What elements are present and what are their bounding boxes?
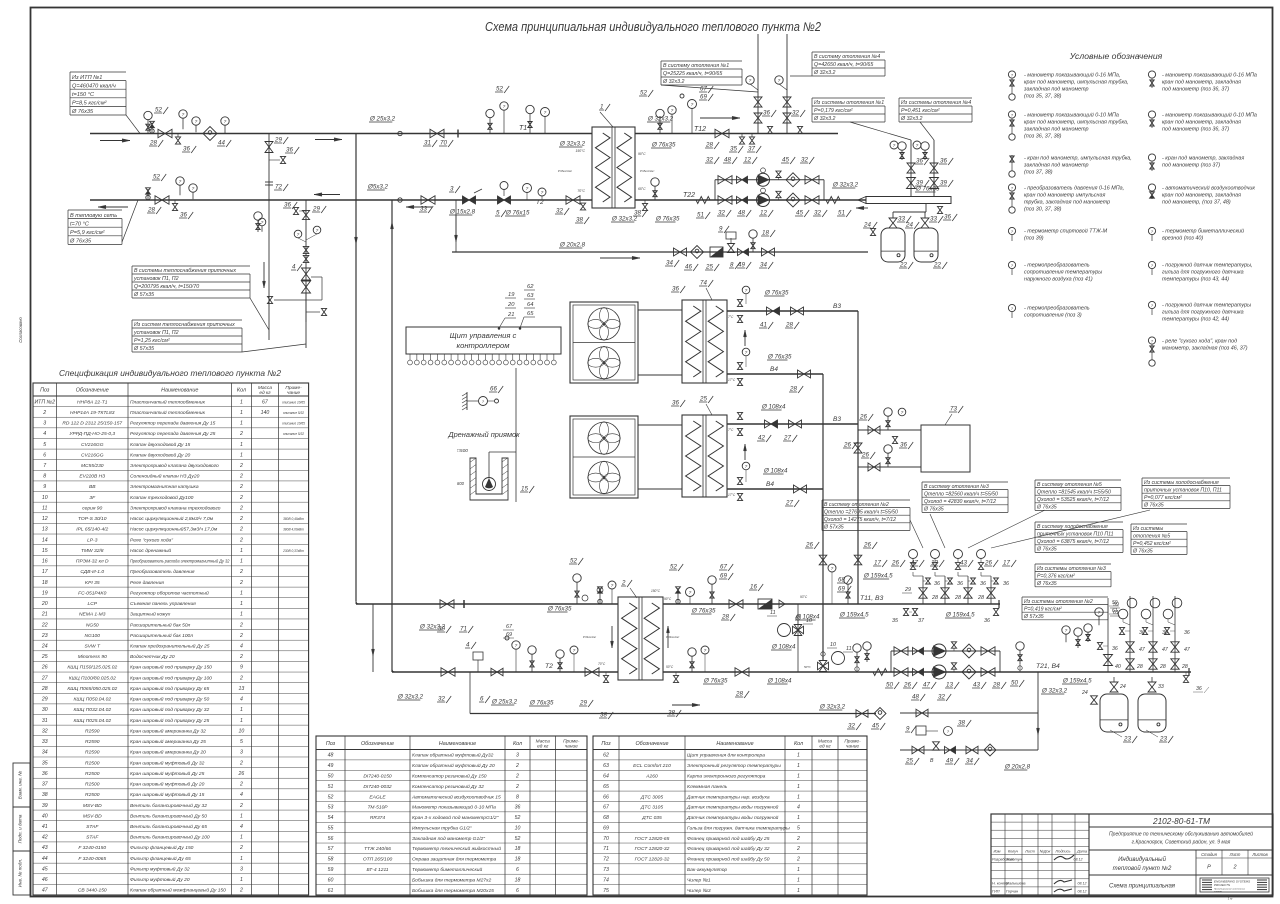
svg-text:чание: чание	[846, 744, 859, 749]
svg-text:Кран шаровый муфтовый Ду 32: Кран шаровый муфтовый Ду 32	[130, 759, 205, 766]
svg-text:Ø 108х4: Ø 108х4	[761, 404, 786, 411]
svg-text:Схема принципиальная индивидуа: Схема принципиальная индивидуального теп…	[485, 20, 821, 34]
svg-text:под манометр, (поз 37, 48): под манометр, (поз 37, 48)	[1162, 200, 1231, 206]
svg-text:систем: систем	[1214, 891, 1222, 893]
svg-text:800: 800	[457, 481, 465, 486]
svg-text:33: 33	[420, 206, 427, 213]
svg-text:кран под манометр импульсная: кран под манометр импульсная	[1024, 193, 1105, 199]
svg-text:2: 2	[796, 836, 800, 842]
svg-text:17: 17	[1003, 560, 1010, 567]
svg-text:F 3240-0150: F 3240-0150	[78, 845, 106, 851]
svg-text:90°С: 90°С	[664, 597, 672, 601]
svg-text:В систему отопления №1: В систему отопления №1	[663, 63, 729, 69]
svg-text:5: 5	[797, 825, 800, 831]
svg-text:- манометр показывающий 0-16 М: - манометр показывающий 0-16 МПа	[1162, 72, 1257, 79]
svg-text:В систему отопления №2: В систему отопления №2	[824, 502, 889, 508]
svg-text:КШЦ П150/125.025.02: КШЦ П150/125.025.02	[67, 665, 117, 671]
svg-text:Кол: Кол	[513, 741, 522, 747]
svg-text:MC55/230: MC55/230	[81, 463, 104, 469]
svg-text:Наименование: Наименование	[161, 388, 198, 394]
svg-text:кран под манометр, закладная: кран под манометр, закладная	[1162, 80, 1241, 86]
svg-text:2: 2	[239, 622, 243, 628]
svg-text:34: 34	[42, 750, 48, 756]
svg-text:Обозначение: Обозначение	[361, 741, 394, 747]
svg-text:48: 48	[724, 157, 731, 164]
svg-text:1: 1	[240, 452, 243, 458]
svg-text:32: 32	[556, 208, 563, 215]
svg-text:Фильтр фланцевый Ду 150: Фильтр фланцевый Ду 150	[130, 844, 194, 851]
svg-text:4: 4	[240, 792, 243, 798]
svg-text:чание: чание	[565, 744, 578, 749]
svg-text:NEMA 1-M3: NEMA 1-M3	[79, 612, 106, 618]
svg-text:26: 26	[984, 560, 992, 567]
svg-text:NG50: NG50	[86, 622, 99, 628]
svg-text:R2590: R2590	[85, 750, 100, 756]
svg-text:гильза для погружного датчика: гильза для погружного датчика	[1162, 270, 1244, 276]
svg-text:R2590: R2590	[85, 739, 100, 745]
svg-text:40: 40	[42, 813, 48, 819]
svg-text:приточных установок П10, П11: приточных установок П10, П11	[1144, 487, 1222, 493]
svg-text:13: 13	[946, 682, 953, 689]
svg-text:Преобразователь давления: Преобразователь давления	[130, 569, 195, 575]
svg-text:35: 35	[42, 760, 48, 766]
svg-text:61: 61	[1112, 608, 1118, 614]
svg-text:ДТС 035: ДТС 035	[641, 815, 662, 821]
svg-text:описание 10/65: описание 10/65	[282, 422, 305, 426]
svg-text:- манометр показывающий 0-10 М: - манометр показывающий 0-10 МПа	[1162, 112, 1257, 119]
svg-text:1: 1	[600, 104, 603, 111]
svg-text:2: 2	[239, 803, 243, 809]
svg-text:температуры (поз 42, 44): температуры (поз 42, 44)	[1162, 317, 1229, 323]
svg-text:Спецификация индивидуального т: Спецификация индивидуального теплового п…	[59, 368, 281, 378]
svg-text:Р=0,376 кгс/см²: Р=0,376 кгс/см²	[1037, 573, 1075, 579]
svg-text:Из системы отопления №1: Из системы отопления №1	[814, 100, 884, 106]
svg-text:28: 28	[721, 614, 729, 621]
svg-text:40: 40	[1115, 664, 1121, 670]
svg-text:24: 24	[863, 222, 871, 229]
svg-text:Ø 108х4: Ø 108х4	[763, 468, 788, 475]
svg-text:2: 2	[239, 474, 243, 480]
svg-text:6: 6	[43, 452, 46, 458]
svg-text:Поз: Поз	[601, 741, 611, 747]
svg-text:08.12: 08.12	[1078, 890, 1087, 894]
svg-text:38: 38	[576, 217, 583, 224]
svg-text:36: 36	[980, 581, 986, 587]
svg-text:В: В	[930, 758, 934, 764]
svg-text:50: 50	[886, 682, 893, 689]
svg-text:- преобразователь давления 0-1: - преобразователь давления 0-16 МПа,	[1024, 186, 1124, 192]
svg-text:37: 37	[748, 146, 755, 153]
svg-text:Ø 32х3.2: Ø 32х3.2	[1041, 688, 1068, 695]
svg-text:1: 1	[797, 773, 800, 779]
svg-text:Клапан обратный межфланцевый Д: Клапан обратный межфланцевый Ду 150	[130, 887, 226, 894]
svg-text:Р=0,179 кгс/см²: Р=0,179 кгс/см²	[814, 108, 853, 114]
svg-text:39: 39	[42, 803, 48, 809]
svg-text:69: 69	[720, 573, 727, 580]
svg-text:Условные обозначения: Условные обозначения	[1069, 51, 1163, 61]
svg-text:2: 2	[515, 773, 519, 779]
svg-text:26: 26	[238, 771, 245, 777]
svg-text:DI7240-0150: DI7240-0150	[363, 773, 392, 779]
svg-text:45: 45	[782, 157, 789, 164]
svg-text:Клапан предохранительный Ду 25: Клапан предохранительный Ду 25	[130, 643, 210, 650]
svg-text:69: 69	[700, 94, 707, 101]
svg-text:1: 1	[240, 410, 243, 416]
svg-text:28: 28	[1136, 664, 1143, 670]
svg-text:230В 0,37кВт: 230В 0,37кВт	[282, 549, 304, 553]
svg-text:Вентиль балансировочный Ду 100: Вентиль балансировочный Ду 100	[130, 834, 210, 841]
svg-text:2: 2	[515, 763, 519, 769]
svg-text:10: 10	[42, 495, 48, 501]
svg-text:Поз: Поз	[326, 741, 336, 747]
svg-text:42: 42	[42, 835, 48, 841]
svg-text:Фильтр фланцевый Ду 65: Фильтр фланцевый Ду 65	[130, 855, 191, 862]
svg-text:В систему отопления №5: В систему отопления №5	[1037, 482, 1102, 488]
svg-text:ед кг: ед кг	[259, 390, 271, 396]
svg-text:Ø 32х3.2: Ø 32х3.2	[559, 141, 586, 148]
svg-text:Регулятор перепада давления Ду: Регулятор перепада давления Ду 15	[130, 421, 216, 427]
svg-text:Т2: Т2	[545, 663, 553, 670]
svg-text:Minomess 90: Minomess 90	[78, 654, 107, 660]
svg-text:Ø 76х35: Ø 76х35	[923, 507, 944, 513]
svg-text:52: 52	[570, 558, 577, 565]
svg-text:Наименование: Наименование	[716, 741, 753, 747]
svg-text:Индивидуальный: Индивидуальный	[1118, 856, 1166, 863]
svg-text:Ø 32х3.2: Ø 32х3.2	[813, 70, 836, 76]
svg-text:Р=5,9 кгс/см²: Р=5,9 кгс/см²	[70, 230, 106, 236]
svg-text:5: 5	[43, 442, 46, 448]
svg-text:Расширительный бак 50л: Расширительный бак 50л	[130, 621, 191, 628]
svg-text:Кран 3-х ходовой под манометрG: Кран 3-х ходовой под манометрG1/2"	[412, 814, 499, 821]
svg-text:36: 36	[286, 147, 293, 154]
svg-text:47: 47	[923, 682, 930, 689]
svg-text:ТТЖ 240/66: ТТЖ 240/66	[364, 846, 391, 852]
svg-text:ННР8А 22-Т1: ННР8А 22-Т1	[77, 399, 108, 405]
svg-text:3: 3	[240, 750, 243, 756]
svg-text:t=150 °С: t=150 °С	[72, 92, 95, 98]
svg-text:Щит управления для контролера: Щит управления для контролера	[687, 753, 765, 759]
svg-text:R2590: R2590	[85, 728, 100, 734]
svg-text:36: 36	[1112, 646, 1118, 652]
svg-text:CV216GG: CV216GG	[81, 452, 104, 458]
svg-text:Р=8,5 кгс/см²: Р=8,5 кгс/см²	[72, 101, 108, 107]
svg-text:36: 36	[934, 581, 940, 587]
svg-text:26: 26	[861, 452, 869, 459]
svg-text:MSV-BD: MSV-BD	[83, 803, 102, 809]
svg-text:38: 38	[600, 712, 607, 719]
svg-text:2: 2	[239, 431, 243, 437]
svg-text:2: 2	[239, 782, 243, 788]
svg-text:1: 1	[797, 867, 800, 873]
svg-text:26: 26	[843, 442, 851, 449]
svg-text:3: 3	[516, 753, 519, 759]
svg-text:R2500: R2500	[85, 760, 100, 766]
svg-text:Инв. № подл.: Инв. № подл.	[18, 859, 23, 888]
svg-text:2: 2	[239, 495, 243, 501]
svg-text:38: 38	[958, 720, 965, 727]
svg-text:Регулятор перепада давления Ду: Регулятор перепада давления Ду 25	[130, 431, 216, 437]
svg-text:28: 28	[1181, 664, 1188, 670]
svg-text:1 м: 1 м	[1228, 897, 1233, 901]
svg-text:28: 28	[785, 322, 793, 329]
svg-text:1: 1	[240, 442, 243, 448]
svg-text:Насос циркуляционный 2,8м3/ч: Насос циркуляционный 2,8м3/ч 7,0м	[130, 515, 214, 522]
svg-text:Манометр показывающий 0-10 МПа: Манометр показывающий 0-10 МПа	[412, 804, 496, 811]
svg-text:Бобышка для термометра М20х15: Бобышка для термометра М20х15	[412, 888, 494, 894]
svg-text:73: 73	[950, 406, 957, 413]
svg-text:установок П1, П2: установок П1, П2	[133, 276, 179, 282]
svg-text:Т2: Т2	[536, 199, 544, 206]
svg-text:39: 39	[916, 180, 923, 187]
svg-text:отопления №5: отопления №5	[1133, 533, 1170, 539]
svg-text:7°С: 7°С	[728, 428, 734, 432]
svg-text:69: 69	[838, 586, 845, 593]
svg-text:В3: В3	[833, 303, 841, 310]
svg-text:Реле давления: Реле давления	[130, 580, 164, 586]
svg-text:1: 1	[240, 421, 243, 427]
svg-text:26: 26	[863, 542, 871, 549]
svg-text:RD 122 D 2312 25/150-157: RD 122 D 2312 25/150-157	[62, 421, 122, 427]
svg-text:2: 2	[796, 857, 800, 863]
svg-text:Фланец приварной под шайбу Ду: Фланец приварной под шайбу Ду 32	[687, 845, 770, 852]
svg-text:52: 52	[328, 794, 334, 800]
svg-text:1: 1	[240, 399, 243, 405]
svg-text:t=70 °С: t=70 °С	[70, 221, 90, 227]
svg-text:Пластинчатый теплообменник: Пластинчатый теплообменник	[130, 409, 206, 416]
svg-text:55: 55	[328, 825, 334, 831]
svg-text:(поз 35, 37, 38): (поз 35, 37, 38)	[1024, 94, 1062, 100]
svg-text:24: 24	[1081, 690, 1088, 696]
svg-text:В систему отопления №3: В систему отопления №3	[924, 484, 989, 490]
svg-text:- кран под манометр, закладна: - кран под манометр, закладная	[1162, 156, 1244, 162]
svg-text:Ø 76х35: Ø 76х35	[547, 606, 572, 613]
svg-text:Т1: Т1	[519, 125, 527, 132]
svg-text:NG100: NG100	[85, 633, 101, 639]
svg-text:температуры (поз 43, 44): температуры (поз 43, 44)	[1162, 277, 1229, 283]
svg-text:КШЦ П100/80.025.02: КШЦ П100/80.025.02	[69, 675, 116, 681]
svg-text:Золотун: Золотун	[1006, 858, 1023, 862]
svg-text:29: 29	[904, 587, 911, 593]
svg-text:EAGLE: EAGLE	[369, 794, 386, 800]
svg-text:наружного воздуха (поз 41): наружного воздуха (поз 41)	[1024, 277, 1093, 283]
svg-text:65: 65	[603, 784, 609, 790]
svg-text:15: 15	[42, 548, 48, 554]
svg-text:36: 36	[940, 158, 947, 165]
svg-text:2: 2	[1232, 865, 1236, 871]
svg-text:Лист: Лист	[1229, 852, 1241, 857]
svg-text:52: 52	[155, 107, 162, 114]
svg-text:Р: Р	[1207, 865, 1211, 871]
svg-text:КШЦ П065/050.025.02: КШЦ П065/050.025.02	[67, 686, 117, 692]
svg-text:Ø 32х3.2: Ø 32х3.2	[832, 182, 859, 189]
svg-text:Фильтр муфтовый Ду 32: Фильтр муфтовый Ду 32	[130, 865, 190, 872]
svg-text:Ø 76х35: Ø 76х35	[1036, 581, 1057, 587]
svg-text:1: 1	[797, 763, 800, 769]
svg-text:Термометр биметаллический: Термометр биметаллический	[412, 866, 482, 873]
svg-text:Кран шаровый муфтовый Ду 25: Кран шаровый муфтовый Ду 25	[130, 770, 205, 777]
svg-text:2: 2	[239, 633, 243, 639]
svg-text:(поз 30, 37, 38): (поз 30, 37, 38)	[1024, 207, 1062, 213]
svg-text:33: 33	[42, 739, 48, 745]
svg-text:Фланец приварной под шайбу Ду: Фланец приварной под шайбу Ду 25	[687, 835, 770, 842]
svg-text:Т12: Т12	[694, 126, 706, 133]
svg-text:62: 62	[603, 753, 609, 759]
svg-text:29: 29	[274, 137, 282, 144]
svg-text:ВВ: ВВ	[89, 484, 96, 490]
svg-text:25: 25	[905, 758, 913, 765]
svg-text:93°С: 93°С	[800, 595, 808, 599]
svg-text:Регулятор оборотов частотный: Регулятор оборотов частотный	[130, 589, 209, 596]
svg-text:Ø 76х35: Ø 76х35	[1036, 505, 1057, 511]
svg-text:Кран шаровый американка Ду 32: Кран шаровый американка Ду 32	[130, 727, 206, 734]
svg-text:32: 32	[801, 157, 808, 164]
svg-text:Кран шаровый под приварку Ду 3: Кран шаровый под приварку Ду 32	[130, 706, 209, 713]
svg-text:35: 35	[730, 146, 737, 153]
svg-text:Гильза для погружн. датчика те: Гильза для погружн. датчика температуры	[687, 825, 790, 831]
svg-text:Qхолод = 42830 ккал/ч, t=7/12: Qхолод = 42830 ккал/ч, t=7/12	[924, 499, 996, 505]
svg-text:2: 2	[239, 505, 243, 511]
svg-text:MSV-BD: MSV-BD	[83, 813, 102, 819]
svg-text:69: 69	[603, 825, 609, 831]
svg-text:- манометр показывающий 0-10 М: - манометр показывающий 0-10 МПа	[1024, 112, 1119, 119]
svg-text:Ø 57х35: Ø 57х35	[133, 292, 154, 298]
svg-text:Колуч: Колуч	[1008, 850, 1018, 854]
svg-text:Ø 32х3.2: Ø 32х3.2	[662, 79, 685, 85]
svg-text:БТ-4 1211: БТ-4 1211	[366, 867, 388, 873]
svg-text:Т21, В4: Т21, В4	[1036, 663, 1060, 670]
svg-text:28: 28	[147, 207, 155, 214]
svg-text:36: 36	[984, 618, 990, 624]
svg-text:1: 1	[240, 548, 243, 554]
svg-text:36: 36	[183, 146, 190, 153]
svg-text:20: 20	[507, 302, 515, 308]
svg-text:Ø 32х3.2: Ø 32х3.2	[813, 116, 836, 122]
svg-text:KPI 35: KPI 35	[85, 580, 100, 586]
svg-text:18: 18	[762, 230, 769, 237]
svg-text:- погружной датчик температуры: - погружной датчик температуры,	[1162, 262, 1253, 269]
svg-text:Т22: Т22	[683, 192, 695, 199]
svg-text:28: 28	[789, 386, 797, 393]
svg-text:под манометр (поз 36, 37): под манометр (поз 36, 37)	[1162, 127, 1229, 133]
svg-text:36: 36	[763, 110, 770, 117]
svg-text:37: 37	[918, 618, 925, 624]
svg-text:36: 36	[957, 581, 963, 587]
svg-text:- термометр биметаллический: - термометр биметаллический	[1162, 228, 1244, 235]
svg-text:Ø 20х2.8: Ø 20х2.8	[1004, 764, 1031, 771]
svg-text:26: 26	[891, 560, 899, 567]
svg-text:34: 34	[760, 262, 767, 269]
svg-text:Ø 76х35: Ø 76х35	[764, 290, 789, 297]
svg-text:11: 11	[770, 610, 776, 616]
svg-text:15: 15	[521, 486, 528, 493]
svg-text:Из системы отопления №2: Из системы отопления №2	[1024, 599, 1093, 605]
svg-text:гильза для погружного датчика: гильза для погружного датчика	[1162, 310, 1244, 316]
svg-text:ПРЭМ-32 кл D: ПРЭМ-32 кл D	[76, 559, 109, 565]
svg-text:ГИП: ГИП	[992, 890, 1000, 894]
svg-text:52: 52	[640, 90, 647, 97]
svg-text:73: 73	[603, 867, 609, 873]
svg-text:Ø 25х3.2: Ø 25х3.2	[491, 699, 518, 706]
svg-text:Датчик температуры нар. воздух: Датчик температуры нар. воздуха	[686, 794, 770, 800]
svg-text:- погружной датчик температуры: - погружной датчик температуры	[1162, 302, 1251, 309]
svg-text:ИТП №2: ИТП №2	[34, 399, 55, 405]
svg-text:1: 1	[797, 784, 800, 790]
svg-text:52: 52	[670, 564, 677, 571]
svg-text:21: 21	[41, 612, 48, 618]
svg-text:Поз: Поз	[40, 388, 50, 394]
svg-text:26: 26	[805, 542, 813, 549]
svg-text:3: 3	[43, 421, 46, 427]
svg-text:описание 5/32: описание 5/32	[283, 411, 304, 415]
svg-text:Ø 32х3.2: Ø 32х3.2	[611, 216, 638, 223]
svg-text:50: 50	[1011, 680, 1018, 687]
svg-text:Реле "сухого хода": Реле "сухого хода"	[130, 537, 173, 543]
svg-text:Компенсатор резиновый Ду 150: Компенсатор резиновый Ду 150	[412, 772, 487, 779]
svg-text:18: 18	[515, 877, 521, 883]
svg-text:Ø 159х4.5: Ø 159х4.5	[945, 612, 975, 619]
svg-text:тепловой пункт №2: тепловой пункт №2	[1113, 865, 1172, 872]
svg-text:30: 30	[42, 707, 48, 713]
svg-text:74: 74	[603, 877, 609, 883]
svg-text:Qтепло =27695 ккал/ч t=55/50: Qтепло =27695 ккал/ч t=55/50	[824, 509, 898, 515]
svg-text:Чилер №1: Чилер №1	[687, 877, 711, 883]
svg-text:63: 63	[603, 763, 609, 769]
svg-text:4: 4	[797, 805, 800, 811]
svg-text:30: 30	[438, 626, 445, 633]
svg-text:PROJECTS: PROJECTS	[1214, 883, 1230, 887]
svg-text:LP-3: LP-3	[87, 537, 98, 543]
svg-text:32: 32	[706, 157, 713, 164]
svg-text:Кран шаровый под приварку Ду 5: Кран шаровый под приварку Ду 50	[130, 696, 209, 703]
svg-text:6: 6	[516, 867, 519, 873]
svg-text:33: 33	[898, 216, 905, 223]
svg-text:Q=42650 ккал/ч, t=90/65: Q=42650 ккал/ч, t=90/65	[814, 62, 873, 68]
svg-text:24: 24	[1119, 684, 1126, 690]
svg-text:13: 13	[42, 527, 48, 533]
svg-text:38: 38	[42, 792, 48, 798]
svg-text:28: 28	[41, 686, 48, 692]
svg-text:F 3240-0065: F 3240-0065	[78, 856, 106, 862]
svg-text:24: 24	[41, 644, 48, 650]
svg-text:закладная под манометр: закладная под манометр	[1023, 163, 1089, 169]
svg-text:59: 59	[1112, 600, 1118, 606]
svg-text:67: 67	[700, 86, 707, 93]
svg-text:51: 51	[328, 784, 334, 790]
svg-text:16: 16	[750, 584, 757, 591]
svg-text:Соленоидный клапан НЗ Ду20: Соленоидный клапан НЗ Ду20	[130, 473, 200, 480]
svg-text:Преобразователь расхода электр: Преобразователь расхода электромагнитный…	[130, 558, 230, 565]
svg-text:Электронный регулятор температ: Электронный регулятор температуры	[687, 762, 781, 769]
svg-text:51: 51	[697, 212, 704, 219]
svg-text:4: 4	[43, 431, 46, 437]
svg-text:36: 36	[180, 212, 187, 219]
svg-text:58: 58	[328, 857, 334, 863]
svg-text:10: 10	[239, 728, 245, 734]
svg-text:11: 11	[42, 505, 47, 511]
svg-text:ГОСТ 12820-65: ГОСТ 12820-65	[635, 836, 670, 842]
svg-text:9: 9	[43, 484, 46, 490]
svg-text:контроллером: контроллером	[457, 341, 511, 350]
svg-text:Датчик температуры воды погруж: Датчик температуры воды погружной	[686, 804, 779, 811]
svg-text:48: 48	[328, 753, 334, 759]
svg-text:(поз 36, 37, 38): (поз 36, 37, 38)	[1024, 134, 1062, 140]
svg-text:Ø 32х3.2: Ø 32х3.2	[397, 694, 424, 701]
svg-text:38: 38	[634, 210, 641, 217]
svg-text:Ø 76х35: Ø 76х35	[1143, 503, 1164, 509]
svg-text:150°С: 150°С	[651, 589, 661, 593]
svg-text:32: 32	[938, 694, 945, 701]
svg-text:14: 14	[42, 537, 48, 543]
